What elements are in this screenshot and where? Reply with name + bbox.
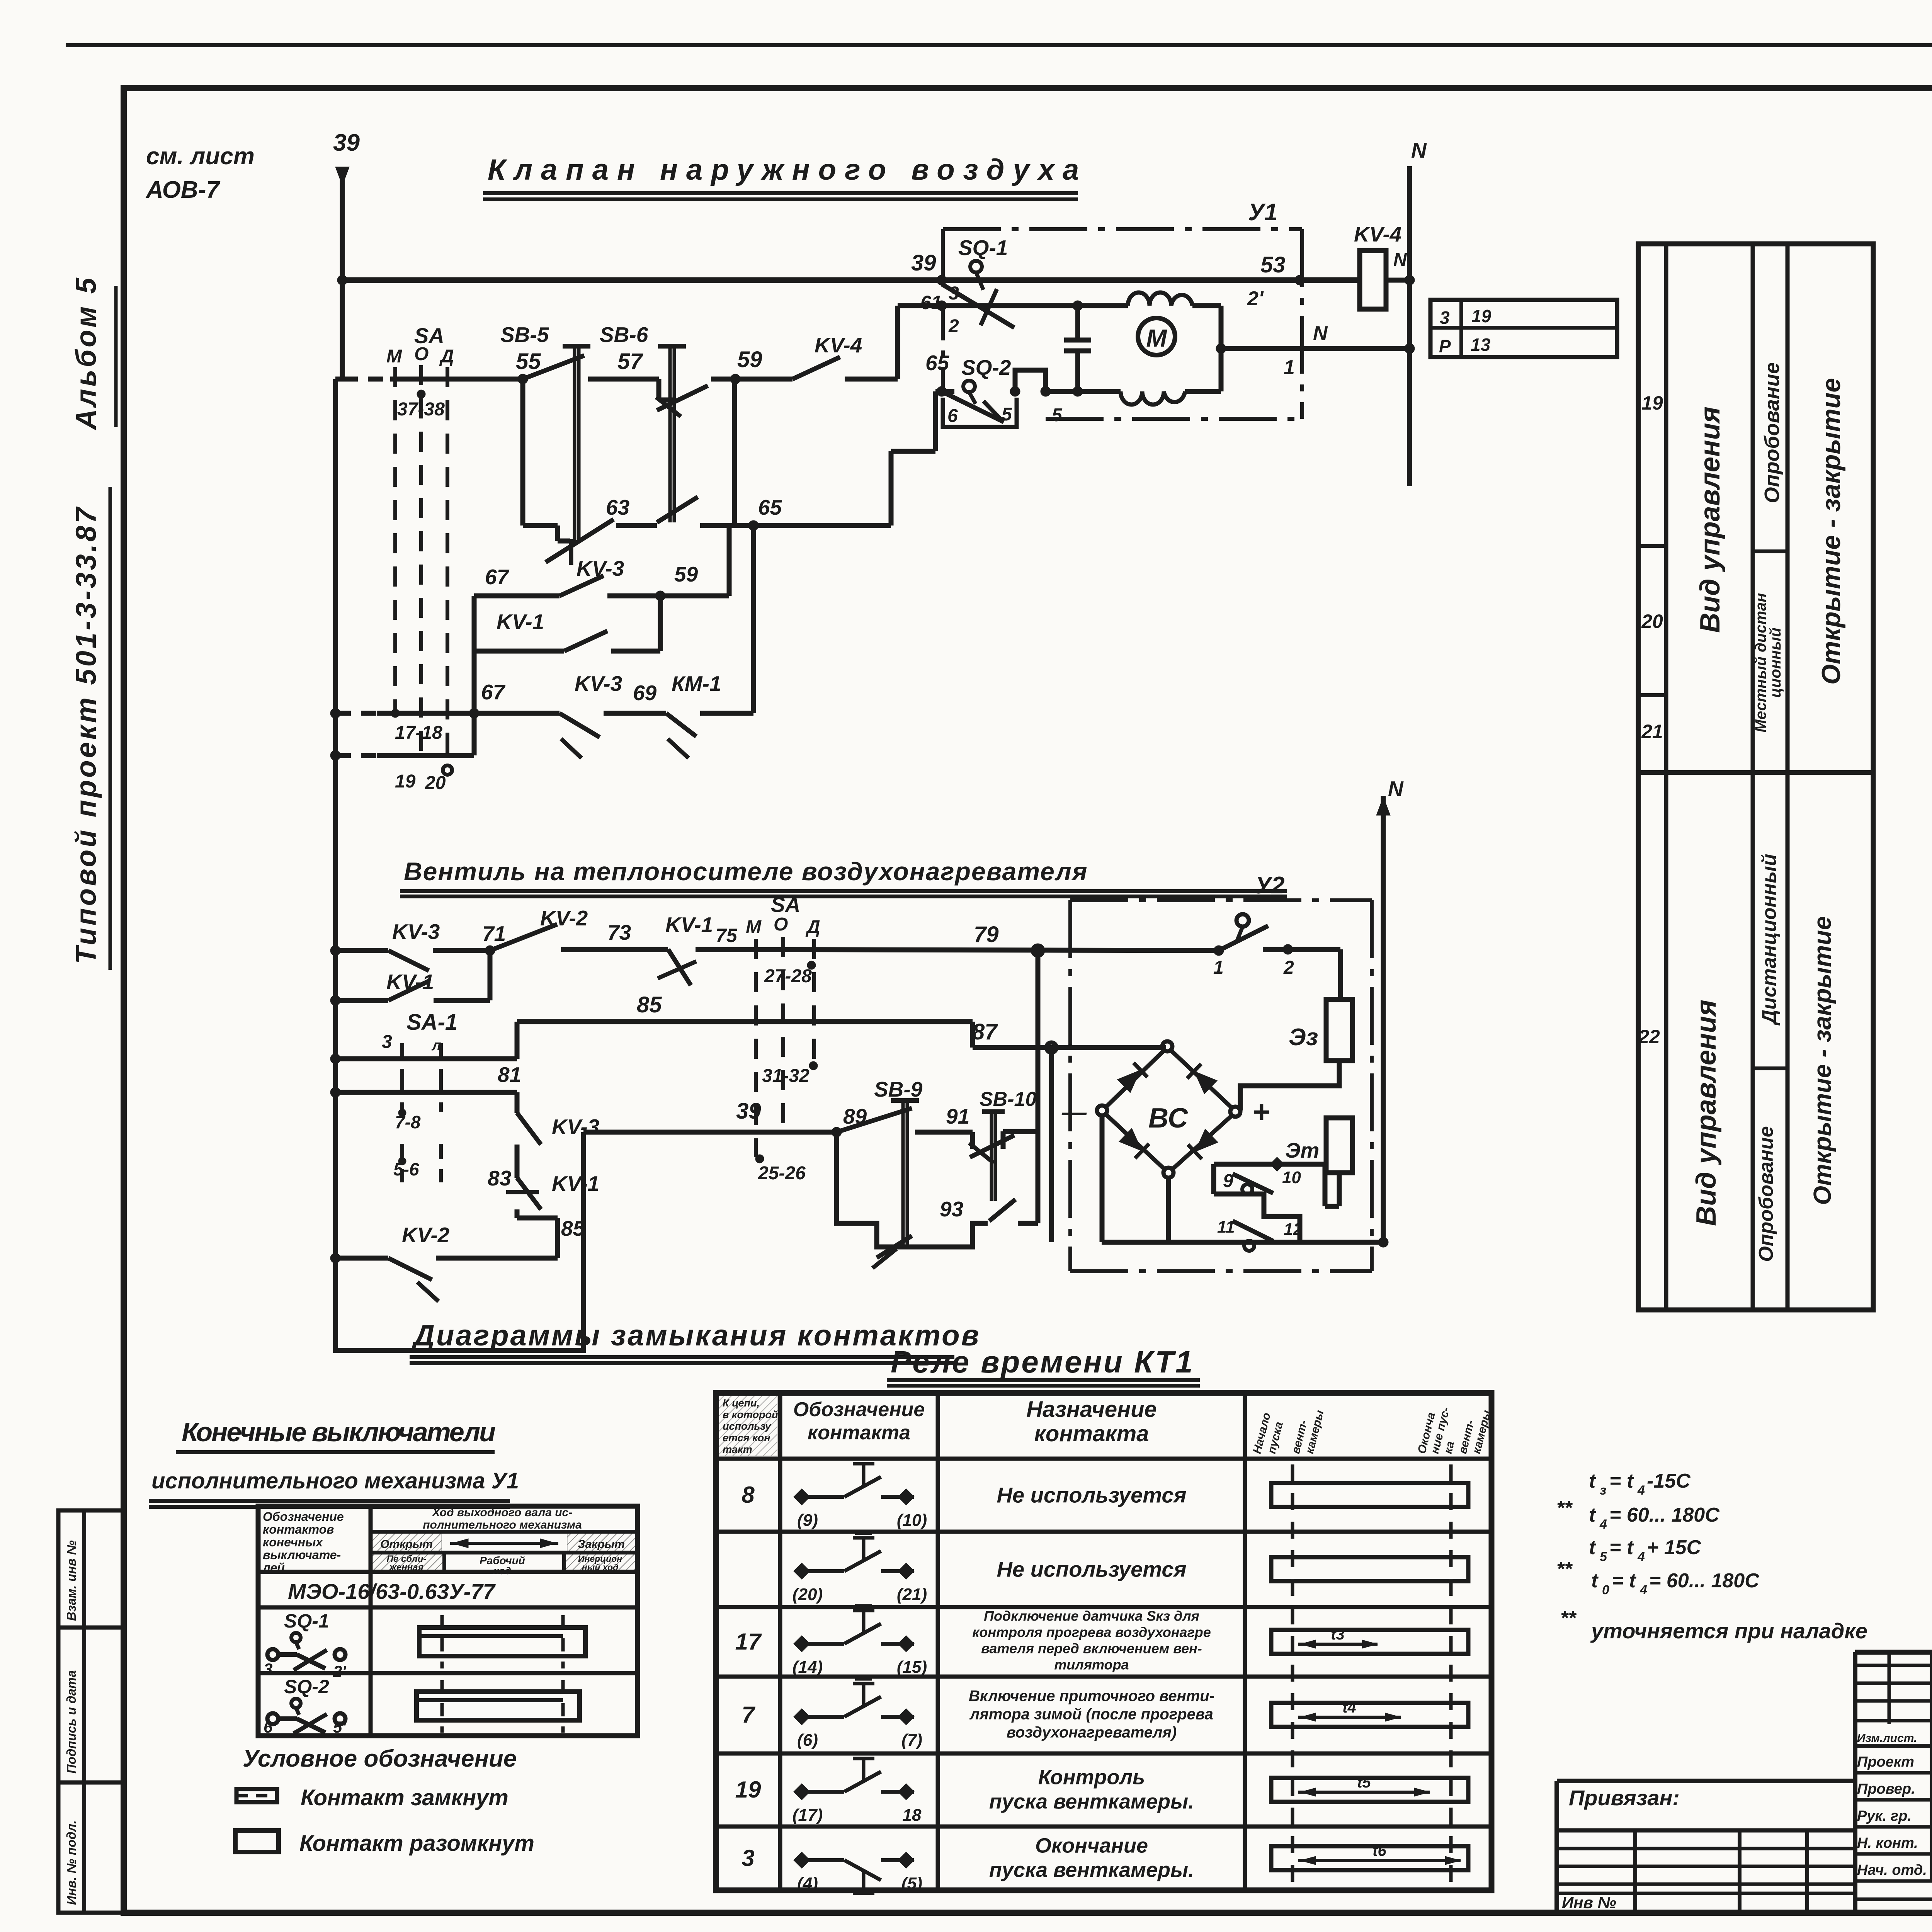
svg-text:5: 5: [1600, 1549, 1607, 1564]
svg-text:ВС: ВС: [1148, 1103, 1188, 1134]
svg-text:4: 4: [1637, 1549, 1645, 1564]
title block frame: [1855, 1650, 1932, 1655]
SQ-2 contact symbol: [267, 1713, 278, 1724]
svg-text:Взам. инв №: Взам. инв №: [64, 1540, 78, 1621]
svg-text:—: —: [1061, 1098, 1087, 1126]
SQ-2 housing box: [943, 398, 1017, 427]
SA c2 dashed M: [754, 939, 758, 1157]
contact KV-1 75: [668, 949, 691, 985]
junction node 55: [518, 374, 528, 384]
loop left riser: [472, 596, 477, 755]
KT1 contact symbol (9)-(10): [794, 1459, 914, 1505]
svg-text:19: 19: [735, 1777, 761, 1803]
row 3 SA-1: [330, 1054, 340, 1064]
svg-text:ционный: ционный: [1767, 628, 1784, 698]
loop riser right: [727, 526, 732, 596]
row 73 segment: [561, 947, 668, 952]
svg-text:17-18: 17-18: [395, 723, 442, 743]
svg-text:12: 12: [1284, 1220, 1303, 1239]
row67 mid: [604, 711, 666, 716]
row 87 wire: [973, 1045, 1166, 1050]
KV-1 row right: [611, 649, 660, 654]
wire bump SQ-2 to motor: [1015, 370, 1046, 391]
contact KV-1 c2: [388, 981, 430, 1000]
svg-text:KV-1: KV-1: [552, 1172, 599, 1196]
svg-text:2: 2: [948, 316, 959, 337]
svg-text:9: 9: [1223, 1171, 1233, 1191]
svg-text:N: N: [1411, 138, 1427, 162]
personnel row Провер.: [1855, 1798, 1932, 1802]
svg-text:5-6: 5-6: [393, 1159, 419, 1179]
svg-text:Вид управления: Вид управления: [1691, 1000, 1722, 1226]
svg-text:19: 19: [1641, 392, 1663, 414]
junction node 61: [937, 275, 947, 285]
svg-text:t6: t6: [1372, 1842, 1386, 1859]
wire ET bottom: [1337, 1173, 1342, 1206]
svg-text:87: 87: [972, 1019, 998, 1044]
svg-text:20: 20: [425, 773, 446, 793]
svg-text:81: 81: [498, 1063, 521, 1087]
KT1 row 19 state bar: [1271, 1778, 1468, 1802]
loop top right segment: [607, 594, 729, 599]
contact mark 31-32: [809, 1061, 818, 1070]
svg-text:Не используется: Не используется: [997, 1483, 1187, 1507]
svg-text:Провер.: Провер.: [1857, 1781, 1915, 1797]
bridge minus vertical: [1100, 1116, 1105, 1242]
svg-text:SB-5: SB-5: [500, 323, 549, 347]
wire motor right side: [1219, 306, 1224, 391]
MEO SQ-2 row: [258, 1671, 638, 1675]
svg-text:22: 22: [1638, 1026, 1660, 1048]
KT1 contact symbol (4)-(5): [794, 1852, 914, 1893]
svg-text:3: 3: [742, 1845, 754, 1871]
svg-text:Обозначение: Обозначение: [793, 1398, 925, 1421]
SQ-2 state bar: [417, 1692, 580, 1720]
bottom loop mid: [909, 1223, 988, 1247]
svg-text:20: 20: [1641, 611, 1663, 632]
svg-text:Окончание: Окончание: [1035, 1834, 1148, 1857]
svg-text:Д: Д: [439, 346, 454, 367]
svg-text:4: 4: [1639, 1583, 1647, 1597]
contact mark 17-18: [391, 709, 400, 718]
svg-text:**: **: [1556, 1497, 1573, 1519]
svg-text:пуска венткамеры.: пуска венткамеры.: [989, 1858, 1194, 1881]
svg-text:(14): (14): [793, 1658, 823, 1677]
block right side: [1323, 1164, 1328, 1206]
svg-text:Рук. гр.: Рук. гр.: [1857, 1808, 1912, 1824]
contact 9-10: [1233, 1174, 1273, 1193]
svg-text:37-38: 37-38: [397, 399, 445, 420]
row labels 19 20 21 22: [1638, 544, 1666, 548]
svg-text:59: 59: [674, 562, 698, 586]
svg-text:(15): (15): [897, 1658, 927, 1677]
svg-text:7: 7: [742, 1702, 755, 1728]
margin box Vzam inv N: [58, 1510, 123, 1628]
riser row63 down: [751, 526, 756, 713]
riser 55 to row63: [520, 379, 526, 526]
svg-text:**: **: [1560, 1607, 1577, 1629]
svg-text:контакта: контакта: [1034, 1421, 1149, 1446]
svg-text:Не используется: Не используется: [997, 1557, 1187, 1582]
svg-text:57: 57: [617, 349, 643, 374]
wire row 61 motor top: [898, 303, 1128, 308]
svg-text:контакта: контакта: [808, 1422, 910, 1444]
svg-text:Р: Р: [1439, 336, 1451, 356]
svg-text:39: 39: [333, 129, 360, 156]
wire node2 to Ez: [1288, 947, 1340, 952]
junction row61: [937, 301, 947, 311]
KT1 row 7 state bar: [1271, 1703, 1468, 1727]
svg-text:Клапан наружного воздуха: Клапан наружного воздуха: [488, 153, 1087, 186]
wire jog SB-6: [656, 379, 662, 400]
contact KV-1 blade: [564, 631, 607, 651]
svg-text:KV-2: KV-2: [402, 1223, 450, 1247]
KV-3 KV-1 holding loop: [474, 594, 560, 599]
svg-text:1: 1: [1213, 957, 1224, 978]
svg-text:(5): (5): [901, 1874, 922, 1893]
rectifier bridge BC: [1162, 1041, 1172, 1051]
svg-text:19: 19: [395, 771, 416, 792]
personnel row Проект: [1855, 1771, 1932, 1775]
terminal table 3-19 P-13: [1430, 300, 1617, 357]
svg-text:Дистанционный: Дистанционный: [1758, 854, 1781, 1026]
jog SB-10: [970, 1132, 975, 1149]
svg-text:Контакт разомкнут: Контакт разомкнут: [299, 1831, 534, 1856]
rail N1 vertical: [1407, 166, 1412, 486]
svg-text:1: 1: [1284, 356, 1295, 379]
svg-text:Условное обозначение: Условное обозначение: [243, 1745, 517, 1772]
resistor ET: [1326, 1118, 1352, 1173]
table vid upravleniya: [1638, 244, 1873, 1310]
svg-text:63: 63: [606, 495, 629, 519]
margin box Inv N podl: [58, 1782, 123, 1913]
row63 mid segment: [616, 523, 657, 528]
svg-text:Нач. отд.: Нач. отд.: [1857, 1862, 1927, 1878]
svg-text:уточняется при наладке: уточняется при наладке: [1590, 1619, 1867, 1643]
svg-text:69: 69: [633, 681, 657, 705]
rail N2: [1381, 796, 1386, 1244]
bus N1 line 39-53 horizontal: [342, 277, 1360, 283]
svg-text:= 60... 180C: = 60... 180C: [1649, 1570, 1760, 1592]
capacitor C motor: [1075, 306, 1080, 340]
svg-text:53: 53: [1260, 252, 1286, 277]
svg-text:Проект: Проект: [1857, 1754, 1914, 1770]
wire 59 segment: [711, 377, 793, 382]
KT1 contact symbol (6)-(7): [794, 1679, 914, 1725]
svg-text:2': 2': [1247, 287, 1264, 310]
svg-text:-15C: -15C: [1647, 1470, 1691, 1492]
svg-text:KV-3: KV-3: [575, 672, 622, 696]
diode D4: [1188, 1128, 1218, 1159]
svg-text:19: 19: [1471, 306, 1492, 326]
svg-text:**: **: [1556, 1558, 1573, 1580]
KT1 contact symbol (14)-(15): [794, 1606, 914, 1652]
svg-text:Альбом 5: Альбом 5: [70, 276, 102, 430]
contact SA blade 55: [523, 355, 584, 379]
wire after KV-4: [845, 377, 898, 382]
svg-text:KV-1: KV-1: [665, 913, 713, 937]
svg-text:KV-2: KV-2: [540, 906, 588, 930]
svg-text:t: t: [1589, 1536, 1597, 1559]
KT1 row x state bar: [1271, 1557, 1468, 1581]
U1 box left lower dash: [941, 306, 945, 391]
svg-text:t3: t3: [1331, 1626, 1345, 1643]
svg-text:М: М: [386, 346, 402, 367]
row 85 wire: [517, 1019, 973, 1024]
svg-text:39: 39: [736, 1099, 761, 1124]
junction 39/bus: [337, 275, 347, 285]
svg-text:КМ-1: КМ-1: [672, 672, 721, 696]
svg-text:75: 75: [716, 925, 738, 946]
SA dashed line M: [393, 367, 397, 713]
relay coil KV-4: [1360, 250, 1386, 309]
diode D3: [1118, 1128, 1149, 1158]
svg-text:SQ-2: SQ-2: [284, 1676, 329, 1697]
diode D1: [1117, 1063, 1147, 1093]
svg-text:6: 6: [947, 406, 958, 426]
SA dashed line D: [446, 367, 449, 767]
svg-text:лятора зимой (после прогрева: лятора зимой (после прогрева: [969, 1706, 1213, 1723]
svg-text:17: 17: [735, 1629, 762, 1655]
svg-text:(17): (17): [793, 1806, 823, 1825]
svg-text:3: 3: [1440, 308, 1450, 328]
legend contact closed: [236, 1789, 277, 1802]
svg-text:39: 39: [911, 250, 936, 276]
title block small cells top: [1855, 1664, 1932, 1667]
svg-text:KV-4: KV-4: [815, 333, 862, 357]
svg-text:контактов: контактов: [263, 1522, 334, 1536]
svg-text:SQ-2: SQ-2: [961, 355, 1011, 379]
svg-text:Типовой проект 501-3-33.87: Типовой проект 501-3-33.87: [70, 505, 102, 964]
svg-text:M: M: [1146, 324, 1167, 352]
personnel row Нач. отд.: [1855, 1879, 1932, 1883]
svg-text:АОВ-7: АОВ-7: [145, 177, 220, 203]
svg-text:= t: = t: [1609, 1536, 1634, 1559]
svg-text:4: 4: [1599, 1517, 1607, 1532]
svg-text:t: t: [1591, 1570, 1599, 1592]
svg-text:55: 55: [516, 349, 541, 374]
svg-text:ка: ка: [1442, 1440, 1457, 1455]
svg-text:О: О: [774, 914, 788, 935]
page outer top line: [66, 43, 1932, 47]
row 71 KV-3: [330, 946, 340, 956]
svg-text:Контроль: Контроль: [1038, 1765, 1145, 1789]
contact SB-9 blade: [837, 1108, 912, 1132]
svg-text:выключате-: выключате-: [263, 1548, 341, 1562]
SA dashed line O: [419, 365, 423, 755]
svg-text:79: 79: [974, 922, 999, 947]
row KV-2 bottom: [330, 1253, 340, 1263]
svg-text:Вентиль на теплоносителе: Вентиль на теплоносителе воздухонагреват…: [404, 857, 1088, 886]
svg-text:Открытие - закрытие: Открытие - закрытие: [1808, 916, 1836, 1205]
ticks 7-8: [400, 1077, 404, 1112]
svg-text:18: 18: [903, 1806, 922, 1825]
svg-text:KV-3: KV-3: [392, 920, 440, 944]
svg-text:тилятора: тилятора: [1054, 1657, 1129, 1673]
contact mark 19-20: [443, 765, 452, 775]
svg-text:Закрыт: Закрыт: [578, 1538, 625, 1551]
svg-text:з: з: [1600, 1483, 1606, 1498]
svg-text:Вид управления: Вид управления: [1695, 406, 1726, 633]
svg-text:SА-1: SА-1: [406, 1010, 457, 1035]
svg-text:Изм.лист.: Изм.лист.: [1857, 1732, 1917, 1745]
contact KV-1 vertical: [517, 1178, 541, 1209]
row 67 KM-1: [335, 711, 377, 716]
junction node 53: [1295, 275, 1305, 285]
contact SB-9 lower: [877, 1236, 912, 1258]
svg-text:Привязан:: Привязан:: [1569, 1786, 1680, 1810]
table rele KT1: [716, 1393, 1492, 1890]
contact mark 37-38: [417, 390, 425, 398]
svg-text:SА: SА: [771, 893, 800, 917]
contact KV-3 c2: [388, 951, 429, 971]
riser 87 down: [1049, 1048, 1054, 1242]
contact KV-3 vertical: [517, 1113, 541, 1145]
bridge bottom vertical: [1166, 1178, 1171, 1242]
vertical 81-83-85 branch: [515, 1092, 520, 1113]
svg-text:см. лист: см. лист: [146, 143, 255, 170]
svg-text:конечных: конечных: [263, 1535, 323, 1549]
privyazan grid: [1633, 1830, 1637, 1910]
svg-text:91: 91: [946, 1104, 969, 1128]
svg-text:7-8: 7-8: [395, 1112, 421, 1132]
svg-text:11: 11: [1217, 1218, 1235, 1236]
svg-text:(6): (6): [797, 1731, 818, 1750]
bottom loop right: [1018, 1221, 1038, 1226]
row 39 c2: [583, 1130, 837, 1135]
svg-text:KV-4: KV-4: [1354, 222, 1401, 246]
svg-text:t: t: [1589, 1504, 1597, 1526]
KT1 timeline ticks: [1291, 1464, 1294, 1886]
svg-text:У2: У2: [1255, 872, 1284, 899]
svg-text:Инв №: Инв №: [1562, 1893, 1616, 1912]
svg-text:(21): (21): [897, 1585, 927, 1604]
row 91: [915, 1130, 973, 1135]
step row63 up: [889, 451, 894, 526]
svg-text:t4: t4: [1342, 1699, 1356, 1716]
contact KV-3 row67: [560, 713, 600, 737]
svg-text:Конечные выключатели: Конечные выключатели: [182, 1417, 495, 1447]
svg-text:Реле времени КТ1: Реле времени КТ1: [891, 1345, 1194, 1379]
svg-text:Открыт: Открыт: [380, 1538, 433, 1551]
svg-text:Ход выходного вала ис-: Ход выходного вала ис-: [432, 1506, 572, 1519]
svg-text:85: 85: [637, 992, 662, 1017]
junction motor-N: [1216, 344, 1226, 354]
svg-text:N: N: [1393, 250, 1407, 270]
contact KV-3 blade loop: [560, 576, 604, 596]
wire N return: [1221, 346, 1408, 351]
junction row63: [748, 520, 759, 531]
svg-text:Эз: Эз: [1289, 1024, 1318, 1051]
row 63 wire: [523, 523, 558, 528]
contact SB-6 lower blade: [657, 497, 698, 522]
svg-text:Опробование: Опробование: [1755, 1126, 1777, 1262]
SA c2 dashed D: [812, 939, 816, 1066]
svg-text:О: О: [414, 344, 429, 364]
svg-text:полнительного механизма: полнительного механизма: [423, 1519, 582, 1531]
svg-text:контроля прогрева воздухонагре: контроля прогрева воздухонагре: [972, 1624, 1211, 1640]
row67 right: [700, 711, 753, 716]
KT1 row 8 state bar: [1271, 1483, 1468, 1507]
contact KM-1: [666, 713, 696, 736]
wire motor bottom row: [1046, 389, 1121, 394]
svg-text:+ 15C: + 15C: [1647, 1536, 1702, 1559]
svg-text:М: М: [746, 917, 762, 937]
svg-text:73: 73: [607, 920, 631, 944]
motor M1: [1138, 318, 1175, 355]
U2 actuator dash-dot box: [1070, 898, 1372, 902]
svg-text:исполнительного механизма У1: исполнительного механизма У1: [151, 1468, 519, 1493]
svg-text:Подпись и дата: Подпись и дата: [64, 1670, 78, 1774]
svg-text:пуска венткамеры.: пуска венткамеры.: [989, 1790, 1194, 1813]
ticks 5-6: [400, 1144, 404, 1182]
svg-text:71: 71: [482, 922, 506, 946]
svg-text:(4): (4): [797, 1874, 818, 1893]
svg-text:(7): (7): [901, 1731, 922, 1750]
col3 top divider: [1753, 549, 1787, 553]
SA c2 dashed O: [781, 937, 785, 1132]
svg-text:Н. конт.: Н. конт.: [1857, 1835, 1918, 1851]
row71 to node: [433, 948, 490, 953]
contact SB-10 blade: [970, 1135, 1014, 1157]
personnel row Рук. гр.: [1855, 1825, 1932, 1829]
personnel row Н. конт.: [1855, 1852, 1932, 1856]
svg-text:8: 8: [742, 1482, 755, 1508]
svg-text:3: 3: [382, 1032, 392, 1052]
svg-text:МЭО-16/63-0.63У-77: МЭО-16/63-0.63У-77: [288, 1579, 496, 1604]
bottom row to N: [1102, 1240, 1383, 1245]
U1 actuator dash-dot box: [943, 227, 1302, 231]
row KV-1 c2: [330, 995, 340, 1005]
svg-text:5: 5: [1002, 404, 1012, 425]
KT1 row 3 state bar: [1271, 1846, 1468, 1870]
svg-text:5': 5': [333, 1718, 347, 1736]
junction circle 87: [1046, 1043, 1056, 1053]
contact KV-2 c2: [490, 924, 557, 951]
svg-text:21: 21: [1641, 721, 1663, 742]
svg-text:SB-6: SB-6: [600, 323, 648, 347]
svg-text:4: 4: [1637, 1483, 1645, 1498]
margin box Podpis i data: [58, 1628, 123, 1782]
row91 right: [1001, 1131, 1006, 1149]
riser 79 down: [1036, 951, 1041, 1131]
svg-text:13: 13: [1471, 335, 1491, 355]
SQ-1 contact symbol: [267, 1649, 278, 1660]
svg-text:= t: = t: [1612, 1570, 1637, 1592]
svg-text:65: 65: [758, 495, 782, 519]
KT1 contact symbol (17)-(18): [794, 1754, 914, 1800]
svg-text:SQ-1: SQ-1: [958, 236, 1008, 260]
riser row3 to row85: [515, 1022, 520, 1059]
contact 93 blade: [989, 1199, 1015, 1221]
legend contact open: [235, 1830, 279, 1852]
contact mark 27-28: [807, 961, 816, 969]
svg-text:t5: t5: [1357, 1774, 1371, 1791]
svg-text:67: 67: [481, 680, 506, 704]
svg-text:Эт: Эт: [1285, 1138, 1319, 1162]
row 81: [330, 1087, 340, 1097]
svg-text:N: N: [1388, 777, 1404, 801]
table MEO limit switches: [258, 1506, 638, 1736]
loop riser c2: [488, 951, 493, 1000]
svg-text:3: 3: [264, 1660, 272, 1678]
row to SA region: [696, 949, 1219, 951]
KT1 contact symbol (20)-(21): [794, 1533, 914, 1579]
svg-text:Назначение: Назначение: [1026, 1397, 1157, 1422]
svg-text:67: 67: [485, 565, 510, 589]
svg-text:SQ-1: SQ-1: [284, 1610, 329, 1632]
svg-text:Контакт замкнут: Контакт замкнут: [301, 1785, 509, 1810]
